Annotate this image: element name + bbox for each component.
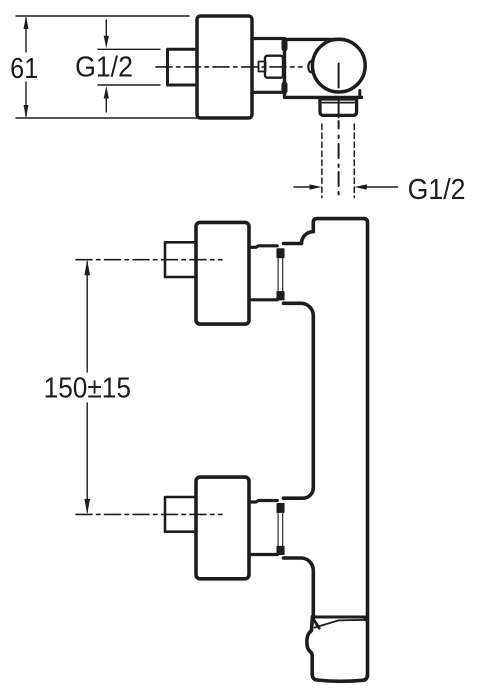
body-ball junction ellipse [308,61,311,72]
top valve square bottom [277,292,284,300]
G1/2 extension line top [98,48,160,50]
valve body [285,39,362,97]
centerline horizontal fig1 [156,66,302,68]
top valve square top [277,249,284,257]
cartridge fitting [265,56,283,78]
spout left outline with hose bump [307,618,368,682]
svg-text:G1/2: G1/2 [75,51,133,83]
svg-text:61: 61 [10,52,38,85]
bottom knob [165,497,196,532]
centerline top valve [76,259,222,261]
neck bottom edge [252,91,285,94]
spout junction line [313,616,368,619]
outlet centerline vertical [338,64,340,195]
spout top diagonal [312,617,319,628]
bottom valve square top [277,504,284,512]
top shoulder lower outline [284,303,314,498]
top valve thin stems [278,257,283,292]
centerline bottom valve [76,513,222,515]
bottom valve neck bottom edge [249,553,277,556]
spout fold line [315,620,368,628]
G1/2 bottom arrow left-pointing [366,186,398,188]
svg-text:150±15: 150±15 [44,371,131,404]
arrow down 61 [24,105,29,118]
bottom handle [196,477,249,579]
cartridge flange [259,62,266,72]
bottom valve thin stems [278,512,283,547]
arrow down 150 [84,499,90,515]
ball elbow circle [312,39,365,92]
neck top edge [252,37,285,40]
bottom valve neck top edge [249,501,277,503]
top shoulder upper outline [284,219,368,676]
top valve neck top edge [249,246,277,248]
nut inner line [323,102,355,104]
top valve neck bottom edge [249,298,277,301]
G1/2 extension line bottom [98,84,160,86]
top handle [196,222,249,324]
dimension line 150±15 [86,262,88,372]
handle side view [197,16,252,118]
arrow up 150 [84,260,90,276]
body joint blob bottom [282,85,288,92]
G1/2 bottom arrow right-pointing [294,186,310,188]
wall union stub [168,49,198,85]
svg-text:G1/2: G1/2 [408,173,466,205]
thread dashed line right [353,124,355,198]
arrow up 61 [24,16,29,29]
G1/2 arrow up [105,98,107,112]
spout joint blob right [363,616,369,622]
body joint blob top [282,42,288,49]
extension line bottom (61 dim) [16,117,197,119]
spout joint blob left [311,614,316,619]
bottom valve square bottom [277,547,284,555]
thread dashed line left [321,124,323,198]
bottom shoulder lower outline [284,558,314,616]
dimension line 61 [25,18,27,52]
G1/2 arrow down [105,20,107,36]
top knob [165,242,196,277]
extension line top (61 dim) [16,15,189,17]
collar right joint [358,91,361,98]
outlet nut [320,99,357,115]
